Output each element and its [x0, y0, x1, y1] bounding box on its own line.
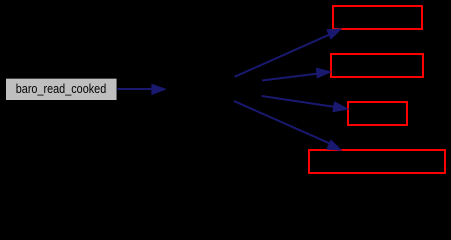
arrowhead B [316, 68, 332, 78]
box 4 (called function, red outline, hidden label) [309, 150, 445, 173]
edge D: middle node -> box 4 (wire) [234, 101, 330, 144]
arrowhead A [327, 29, 343, 40]
node baro_read_cooked (current function, grey box) [6, 79, 117, 100]
arrowhead C [333, 102, 349, 113]
svg-text:baro_read_cooked: baro_read_cooked [16, 81, 107, 96]
edge B: middle node -> box 2 (wire) [262, 74, 318, 81]
edge baro_read_cooked -> hidden middle node (wire) [117, 88, 153, 90]
arrowhead D [327, 140, 343, 151]
box 1 (called function, red outline, hidden label) [333, 6, 422, 29]
box 2 (called function, red outline, hidden label) [331, 54, 423, 77]
edge A: middle node -> box 1 (wire) [235, 34, 330, 77]
arrowhead into middle node [152, 84, 167, 95]
box 3 (called function, red outline, hidden label) [348, 102, 407, 125]
edge C: middle node -> box 3 (wire) [262, 96, 335, 107]
